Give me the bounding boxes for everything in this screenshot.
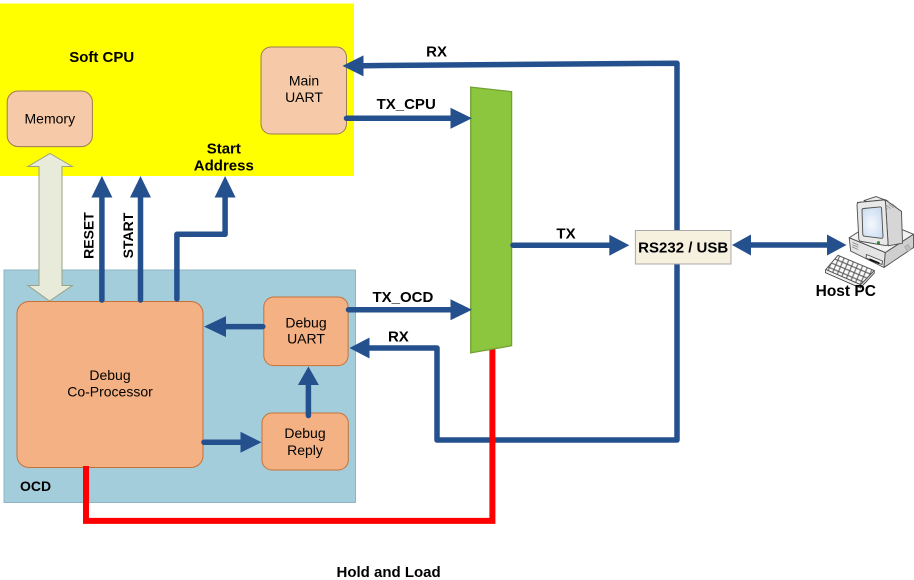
- label RX lower: [388, 329, 409, 346]
- base front face: [849, 238, 885, 268]
- svg-text:Soft CPU: Soft CPU: [69, 49, 134, 66]
- svg-text:RESET: RESET: [81, 212, 97, 259]
- block Debug UART: [264, 297, 348, 366]
- wire Debug UART to Debug Co-Processor: [204, 316, 263, 337]
- block RS232 / USB: [635, 231, 731, 265]
- svg-text:Main: Main: [289, 73, 319, 89]
- svg-text:RS232 / USB: RS232 / USB: [638, 240, 728, 257]
- svg-text:Debug: Debug: [284, 425, 325, 441]
- svg-text:Debug: Debug: [89, 367, 130, 383]
- block Debug Reply: [262, 413, 348, 470]
- label RX top: [426, 44, 447, 61]
- svg-text:Host PC: Host PC: [816, 283, 876, 300]
- wire red Hold-and-Load: [86, 346, 492, 521]
- svg-text:TX_CPU: TX_CPU: [377, 96, 436, 113]
- label TX: [556, 225, 575, 242]
- svg-text:START: START: [120, 212, 136, 258]
- wire RX from RS232/USB to Main UART and Debug UART: [343, 55, 678, 440]
- svg-text:UART: UART: [287, 331, 325, 347]
- power led: [877, 241, 880, 244]
- label START: [120, 212, 136, 258]
- floppy slot bay: [866, 255, 883, 265]
- svg-text:Address: Address: [194, 157, 254, 174]
- block Soft CPU: [0, 4, 354, 177]
- monitor top cap: [864, 197, 888, 205]
- svg-text:TX: TX: [556, 225, 575, 242]
- svg-text:Hold and Load: Hold and Load: [337, 564, 441, 580]
- label TX_CPU: [377, 96, 436, 113]
- side vent: [905, 245, 912, 252]
- label Host PC: [816, 283, 876, 300]
- monitor bezel front: [857, 200, 888, 246]
- svg-text:Co-Processor: Co-Processor: [67, 383, 153, 399]
- svg-text:RX: RX: [388, 329, 409, 346]
- svg-text:Debug: Debug: [285, 314, 326, 330]
- svg-text:Start: Start: [207, 141, 241, 158]
- base right face: [884, 234, 914, 267]
- keyboard right side: [860, 271, 874, 288]
- label Start Address: [194, 141, 254, 175]
- double-headed block arrow Memory-OCD: [28, 154, 72, 302]
- monitor top vents: [883, 204, 897, 210]
- wire Start Address arrow: [177, 176, 236, 299]
- icon Host PC computer: [825, 197, 913, 288]
- wire TX: [513, 235, 629, 256]
- label RESET: [81, 212, 97, 259]
- mux trapezoid: [471, 87, 512, 353]
- wire RESET arrow: [91, 176, 112, 300]
- wire Debug Co-Processor to Debug Reply: [204, 432, 262, 453]
- keyboard side: [825, 270, 860, 288]
- monitor right face: [885, 200, 902, 246]
- wire Debug Reply to Debug UART: [298, 367, 319, 416]
- svg-text:UART: UART: [285, 89, 323, 105]
- keyboard top: [826, 255, 875, 284]
- label Hold and Load: [337, 564, 441, 580]
- block Memory: [7, 91, 92, 147]
- svg-text:TX_OCD: TX_OCD: [372, 289, 433, 306]
- monitor top face: [857, 200, 901, 215]
- svg-text:RX: RX: [426, 44, 447, 61]
- block Main UART: [261, 47, 347, 134]
- wire START arrow: [130, 176, 151, 300]
- svg-text:OCD: OCD: [20, 478, 51, 494]
- speaker grille: [852, 243, 858, 250]
- base top face: [849, 220, 913, 253]
- wire TX_OCD: [349, 299, 473, 320]
- svg-text:Memory: Memory: [25, 111, 76, 127]
- wire RS232/USB to Host PC double arrow: [732, 235, 847, 256]
- screen: [862, 207, 883, 238]
- floppy slot: [869, 258, 879, 264]
- block OCD: [4, 270, 356, 503]
- block Debug Co-Processor: [17, 302, 203, 468]
- wire TX_CPU: [347, 108, 473, 129]
- label TX_OCD: [372, 289, 433, 306]
- svg-text:Reply: Reply: [287, 442, 323, 458]
